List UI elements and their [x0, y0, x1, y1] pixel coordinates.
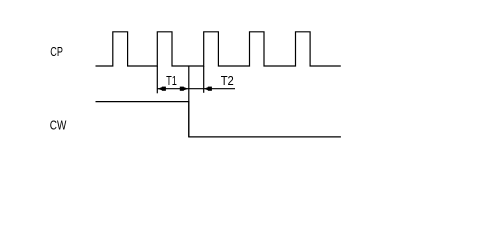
svg-text:T2: T2 — [221, 74, 234, 88]
wire CW waveform — [96, 102, 341, 137]
svg-text:T1: T1 — [166, 74, 177, 88]
arrow left of T2 — [204, 87, 212, 91]
wire CP waveform — [96, 32, 341, 66]
svg-text:CP: CP — [50, 45, 63, 59]
arrow right of T1 — [180, 87, 189, 91]
svg-text:CW: CW — [50, 118, 67, 132]
extension line at pulse3 rising edge — [203, 66, 205, 93]
extension line at CW falling edge — [188, 66, 190, 137]
arrow left of T1 — [157, 87, 166, 91]
dimension line — [157, 88, 235, 90]
extension line at pulse2 rising edge — [156, 66, 158, 93]
